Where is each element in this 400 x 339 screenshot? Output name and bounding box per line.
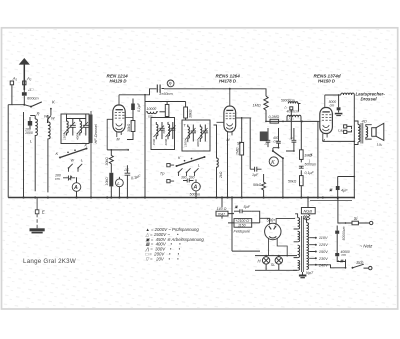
tube1 legs [117,132,121,137]
svg-text:R: R [37,112,40,117]
svg-text:M: M [227,138,230,142]
svg-text:A: A [73,185,78,191]
contacts mid [184,160,186,162]
svg-text:125V: 125V [319,243,328,247]
trimmer cap 3x60 [157,85,164,93]
cap 5000cm to gnd [337,107,341,110]
box3 coil a [188,125,190,142]
svg-text:30kΩ: 30kΩ [189,109,193,118]
tube2 anode [226,109,233,111]
box1 cap a [70,119,76,136]
tap labels [318,236,328,267]
svg-text:4000: 4000 [164,138,168,145]
lamp SL [275,257,282,264]
box2 coil b [168,122,170,139]
drop from bus x222 [221,198,223,208]
contact W switch [48,116,52,124]
tube2 legs [228,132,233,138]
svg-text:△: △ [273,223,277,227]
svg-text:NGB: NGB [304,209,313,214]
svg-text:2kΩ: 2kΩ [219,171,223,179]
svg-text:5μF: 5μF [244,205,251,209]
box3 cap a [191,125,196,142]
earth terminal E [35,210,39,214]
scale lamp A mid [192,182,201,191]
vertical x145 to bus [144,95,146,198]
circled K det [269,157,278,166]
wire tube2 cathode down to bus [227,137,229,197]
coil 10000cm horiz [146,112,158,114]
cathode wire right [323,140,355,142]
resistor 1M vert left tube2 [240,143,244,156]
NGB dropper box [301,196,315,220]
tube2 cathode [227,124,233,126]
cap block left [28,121,32,126]
grid components left of tube3 [288,102,300,140]
svg-text:Si: Si [354,216,358,221]
grid cap line tube1 [119,85,164,198]
tube3 legs [323,134,327,142]
sub switch L [78,164,82,172]
mains circuit [316,198,373,270]
pilot lamps [255,255,297,271]
lamp H [262,257,269,264]
svg-text:H4178 D: H4178 D [219,78,236,83]
tube3 top lead [324,95,326,108]
svg-text:7047: 7047 [218,212,226,216]
box2 arrow b [166,126,176,138]
svg-text:M: M [322,139,325,143]
grid line down to bus x318 [312,121,318,197]
box3 arrow a [185,128,196,140]
top wire [325,94,341,96]
capacitor 600cm [22,92,27,96]
L dial lamp wire [118,149,120,151]
resistor 30k vert x185 [184,107,188,118]
switch det arm [273,151,283,158]
svg-text:Lange Gral 2K3W: Lange Gral 2K3W [23,258,76,265]
switch arm mid [177,157,205,166]
right vertical x354.5 [353,95,355,199]
antenna coil 1 [35,116,37,192]
zigzag 50k small [262,174,266,197]
switch R arm [30,106,32,108]
bus dots [22,196,339,198]
bottom wire y251 [232,250,260,252]
fuse Si [352,221,358,225]
primary winding bottoms [293,229,298,270]
box2 cap a [159,122,164,139]
box2 coil a [156,122,158,139]
svg-text:La₁: La₁ [338,129,344,133]
terminal A2 [23,81,26,85]
contact K upper [50,108,52,110]
svg-text:cm: cm [274,139,279,143]
svg-text:L: L [117,181,120,187]
terminal sq [290,107,293,110]
svg-text:▽ = 20V • •: ▽ = 20V • • [146,256,180,261]
svg-text:L: L [81,159,83,163]
svg-text:140 Ω: 140 Ω [217,207,227,211]
svg-text:A₁: A₁ [12,76,18,81]
speaker [372,128,376,137]
cap 0,1uF mid [125,165,131,197]
resistor vert x167 [165,105,169,117]
svg-text:E: E [42,209,45,214]
svg-text:1μF: 1μF [252,173,259,177]
tube1 cathode [116,124,122,127]
switch Sch [353,264,369,268]
svg-text:△□: △□ [123,168,130,172]
tube1 grid dashes [115,113,125,119]
svg-text:K: K [271,160,275,166]
anode circuit tube3 [323,93,355,199]
scale lamp A [72,183,81,192]
core lines [361,123,363,144]
wire tube1 top to trimmer [119,89,157,95]
tube3 anode [322,111,329,113]
svg-text:50000cm: 50000cm [342,226,346,240]
svg-text:La₂: La₂ [377,142,383,146]
antenna [23,63,25,90]
svg-text:3×60cm: 3×60cm [159,92,173,96]
box3 cap b [203,125,208,142]
svg-text:500cm: 500cm [190,192,201,196]
svg-text:Sch: Sch [356,260,364,265]
svg-text:△□: △□ [27,87,34,91]
resistor 0,2M box [270,119,279,123]
cap 0,1uF block [131,104,135,111]
box1 coil b [80,119,82,136]
circled R [167,80,174,87]
svg-text:506•: 506• [267,218,276,223]
wire A to bus [76,177,78,197]
svg-text:4Ω: 4Ω [362,119,367,124]
La terminal squares [344,125,347,128]
svg-text:0,1μF: 0,1μF [137,102,141,112]
wire horizontal left [8,104,24,106]
box2 arrow a [154,126,165,138]
4uF branch [338,177,355,199]
box1 arrow b [77,122,88,134]
caps row y140 b [276,128,281,148]
wire left vertical to bus [7,105,9,198]
wire y150 [107,149,128,151]
tube3 envelope [320,108,333,134]
core [302,216,304,272]
anode leads [260,218,295,224]
svg-text:600cm: 600cm [27,95,39,100]
svg-text:M: M [117,138,120,142]
svg-text:cm: cm [342,253,347,257]
primary windings left column [298,218,300,229]
resistor 50k right [300,176,304,186]
box 3 [182,120,210,151]
svg-text:SL: SL [271,263,275,267]
svg-text:230V: 230V [318,257,328,261]
box1 arrow a [64,122,76,134]
svg-text:L: L [30,139,32,144]
zigzag resistor 1M tall [264,96,268,121]
wire box left [23,112,25,198]
svg-text:1500: 1500 [152,138,156,145]
earth bar [30,228,45,231]
svg-text:(₤: (₤ [310,153,313,157]
wire to switch pivot [24,105,31,107]
box1 coil a [67,119,69,136]
cap 0,1uF right [299,166,304,175]
tube1 envelope [113,105,125,132]
ground below core [302,272,304,275]
tube1 top lead [118,95,120,105]
svg-text:L: L [198,164,200,168]
svg-text:H4150 D: H4150 D [318,78,335,83]
caps row y140 c [292,128,297,151]
svg-text:1500: 1500 [62,133,66,140]
choke coil [341,93,355,95]
bus heavy segment right [310,200,352,202]
box1 bottom wire to bus [75,143,98,145]
zigzag resistor 30k [109,150,113,167]
box [61,114,89,144]
second vert x250 [249,118,251,169]
mains caps to chassis [335,231,339,234]
cap 1uF [250,167,261,172]
svg-text:500: 500 [189,176,195,180]
drop from bus x232 [231,198,233,252]
tube3 cathode [323,125,330,127]
svg-text:300: 300 [181,176,187,180]
svg-text:0,2MΩ: 0,2MΩ [269,115,280,119]
rectifier left lead [252,211,260,223]
antenna coil 2 [48,119,50,192]
fuse terminal [370,221,373,224]
box3 coil b [200,125,202,142]
tube3 grid dashes [322,115,332,121]
dial lamp L [116,179,124,187]
svg-text:△: △ [283,105,287,109]
lamp wires [255,256,297,271]
svg-text:150V: 150V [319,250,328,254]
tube2 envelope [224,106,236,132]
components right of tube1 [127,99,135,140]
resistor 30k vert [131,121,135,132]
svg-text:K: K [52,100,55,105]
svg-text:HF-Drossel: HF-Drossel [94,124,98,143]
svg-text:1150: 1150 [238,224,246,228]
svg-text:△ □: △ □ [287,117,294,121]
wire antenna to cap [23,85,25,105]
wires A mid [195,180,197,198]
secondary winding [366,127,368,138]
secondary tall winding [307,223,309,270]
svg-text:10kΩ: 10kΩ [105,177,109,186]
svg-text:4000: 4000 [196,140,200,147]
svg-text:Feldspule: Feldspule [234,229,250,233]
svg-text:K: K [56,151,59,156]
bus line [8,197,355,199]
box1 top feeds [67,114,86,119]
svg-text:30kΩ: 30kΩ [105,157,109,166]
svg-text:4μF: 4μF [341,189,348,193]
caps row y140 a [266,128,271,147]
svg-text:cm: cm [330,103,335,107]
contacts [67,152,69,154]
sub contacts [179,168,199,176]
terminal A1 [10,81,13,85]
svg-text:cm: cm [148,114,153,118]
drop from bus x337.9 wire to fuse [338,198,346,224]
coil 50000cm horiz [288,102,300,104]
long wire y89.3 to detector [164,88,266,96]
box1 cap b [83,119,89,136]
tube3 grid entry [318,121,320,123]
transformer top connection [295,214,306,223]
coil 2k right of box3 [214,125,219,197]
trim cap 100cm [63,176,75,181]
svg-text:50kΩ: 50kΩ [288,180,297,184]
tube1 anode [116,109,123,111]
box2 cap b [170,122,175,139]
wire A1 down [11,85,13,105]
tube2 grid dashes [226,113,235,119]
resistor 140ohm box [216,211,228,216]
svg-text:Tp: Tp [160,170,165,175]
svg-text:▲▦: ▲▦ [337,259,344,263]
resistor 1M right [300,150,304,160]
svg-text:△: △ [264,141,268,145]
svg-text:cm: cm [55,177,60,181]
tube2 side exits [217,118,252,122]
svg-text:~ Netz: ~ Netz [360,244,374,249]
box 2 [151,118,175,150]
power transformer [293,214,317,278]
svg-text:NpT: NpT [306,271,314,275]
svg-text:0,1μF: 0,1μF [305,171,315,175]
svg-text:W: W [71,159,75,163]
svg-text:30kΩ: 30kΩ [127,123,131,132]
taps [309,238,315,265]
svg-text:A: A [193,185,198,191]
label line wire [266,120,312,122]
svg-text:1MΩ: 1MΩ [253,104,261,108]
box3 arrow b [198,128,208,140]
Tp terminal squares [167,164,170,167]
svg-text:H4129 D: H4129 D [110,78,127,83]
svg-text:240V: 240V [318,263,328,267]
cathode leads down [269,238,288,256]
svg-text:10000: 10000 [147,107,157,111]
svg-text:1500: 1500 [184,140,188,147]
caps 300/500 [183,179,193,183]
svg-text:50000cm: 50000cm [281,98,295,102]
svg-text:A₂: A₂ [26,76,32,81]
svg-text:110V: 110V [319,236,328,240]
node junction [23,104,25,106]
svg-text:K: K [85,143,88,148]
svg-text:+2100 Ω: +2100 Ω [236,219,250,223]
coil horiz 4000cm [287,115,301,121]
wires [291,104,298,140]
primary winding [358,125,360,142]
solid resistor block [109,173,113,187]
switch arm [60,149,87,158]
field coil box [234,219,252,228]
svg-text:Drossel: Drossel [361,97,378,102]
solid block right of tube2 [260,132,268,142]
HF-Drossel coil [90,111,93,198]
svg-text:50kΩ: 50kΩ [253,183,262,187]
sub switch W [69,164,73,172]
tube2 top lead [229,89,231,106]
wire through [222,214,234,219]
svg-text:1000: 1000 [25,131,33,135]
grid circuit under tube1 [107,149,130,198]
svg-text:W: W [44,115,48,119]
tube1 grid side exits [107,118,133,150]
svg-text:W: W [51,117,55,121]
rectifier tube 506 [260,218,295,255]
cap 5uF [234,209,252,213]
svg-text:1MΩ: 1MΩ [236,147,240,155]
svg-text:5000cm: 5000cm [305,163,317,167]
svg-text:4000: 4000 [76,133,80,140]
